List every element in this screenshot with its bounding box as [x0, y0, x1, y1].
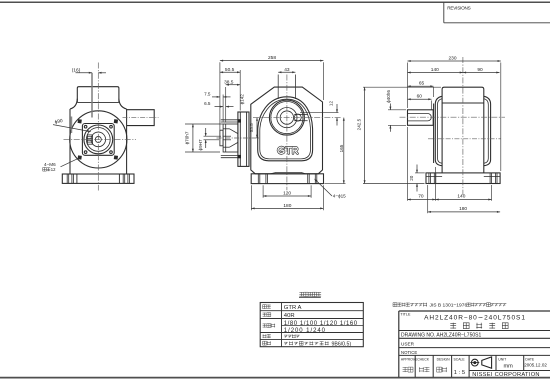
- svg-text:(16): (16): [72, 67, 81, 73]
- bottom row dividers: [414, 355, 416, 377]
- dim 7.5: [212, 96, 220, 98]
- svg-text:50.5: 50.5: [225, 67, 235, 73]
- svg-text:ϕ142: ϕ142: [239, 94, 244, 105]
- svg-text:4−ϕ15: 4−ϕ15: [333, 193, 346, 198]
- svg-text:120: 120: [283, 191, 291, 197]
- svg-text:242.5: 242.5: [357, 118, 362, 130]
- left view: gearbox front (input face) view: [43, 63, 159, 191]
- top page border: [0, 1, 550, 3]
- svg-text:APPROVE: APPROVE: [401, 357, 418, 361]
- inner bore circle: [280, 111, 293, 124]
- svg-text:REVISIONS: REVISIONS: [447, 5, 470, 10]
- REVISIONS block: [444, 2, 550, 23]
- housing tub outer: [258, 97, 313, 161]
- svg-text:180: 180: [459, 206, 467, 212]
- view vertical centerline: [286, 75, 288, 191]
- output shaft centerline: [123, 117, 159, 119]
- dim 20: [415, 172, 425, 174]
- spec table grid: [260, 303, 363, 347]
- foot tab inner edges: [76, 174, 78, 183]
- output shaft protruding right: [127, 110, 155, 126]
- svg-text:7.5: 7.5: [204, 91, 211, 96]
- base rib bump: [271, 173, 306, 174]
- cap joint line: [77, 101, 119, 103]
- title block frame: [398, 311, 400, 377]
- base plate: [426, 173, 500, 184]
- svg-text:9B6/0.5): 9B6/0.5): [332, 341, 352, 347]
- output shaft: [408, 110, 434, 126]
- middle view: side elevation with motor flange: [217, 75, 342, 191]
- svg-text:1/200 1/240: 1/200 1/240: [284, 328, 326, 334]
- motor flange plate: [238, 112, 249, 166]
- octagonal body outline: [251, 87, 323, 174]
- dim 38.5: [225, 87, 227, 123]
- hidden boss line left: [71, 117, 73, 134]
- svg-text:DESIGN: DESIGN: [437, 357, 451, 361]
- top clamp bolt: [221, 119, 238, 121]
- input bore lines: [223, 135, 231, 137]
- dim 180 bottom: [427, 185, 429, 213]
- svg-text:DATE: DATE: [525, 357, 535, 361]
- shaft hole circle: [277, 108, 297, 128]
- main body rect: [442, 87, 484, 173]
- spigot circle: [84, 125, 113, 154]
- svg-text:258: 258: [268, 55, 276, 61]
- svg-text:20: 20: [409, 175, 414, 181]
- body right side: [126, 109, 128, 174]
- input shaft circle: [95, 136, 101, 142]
- 4 blackened motor bolt holes: [78, 119, 82, 123]
- base pad lines: [426, 175, 442, 177]
- base slots: [257, 174, 259, 184]
- dim 242.5: [363, 86, 441, 88]
- svg-text:AH2LZ40R−80∼240L750S1: AH2LZ40R−80∼240L750S1: [424, 314, 526, 321]
- svg-text:mm: mm: [504, 363, 514, 369]
- right rim bulge inner: [484, 99, 489, 164]
- svg-text:2005.12.02: 2005.12.02: [524, 363, 547, 368]
- view vertical centerline: [462, 57, 464, 195]
- dim (16): [76, 72, 93, 74]
- body left side: [69, 109, 71, 174]
- dim 230: [407, 63, 409, 109]
- third angle projection symbol: [471, 359, 478, 366]
- keyway lines: [408, 114, 432, 121]
- spec table header (gear spec): [299, 292, 321, 296]
- svg-text:ϕ40h6: ϕ40h6: [386, 90, 391, 103]
- dim 60: [431, 101, 433, 110]
- housing tub inner wall: [260, 99, 311, 159]
- left rim bulge inner: [438, 99, 443, 164]
- motor flange circle: [70, 111, 127, 168]
- subtitle: outline dimension drawing: [450, 323, 508, 329]
- svg-text:165: 165: [339, 144, 344, 152]
- cover joint line: [442, 102, 484, 104]
- svg-text:CHECK: CHECK: [417, 357, 430, 361]
- svg-text:65: 65: [419, 81, 425, 87]
- svg-text:12: 12: [51, 167, 56, 172]
- dim 140 bottom: [491, 185, 493, 201]
- dim 180 middle: [250, 185, 252, 210]
- right rim bulge outer: [484, 96, 491, 165]
- svg-text:90: 90: [477, 67, 483, 73]
- note: output shaft key per JIS B 1301-1976: [393, 303, 427, 307]
- key section block with hatch: [87, 135, 92, 144]
- input shaft side line: [91, 73, 93, 118]
- dim 12 offset: [300, 112, 339, 114]
- svg-text:1/80 1/100 1/120 1/160: 1/80 1/100 1/120 1/160: [284, 321, 358, 327]
- base plate: [251, 174, 323, 184]
- base block: [62, 174, 134, 183]
- boss face line: [433, 104, 435, 164]
- svg-text:1 : 5: 1 : 5: [454, 370, 465, 376]
- svg-text:53.5: 53.5: [249, 123, 254, 132]
- svg-text:DRAWING NO. AH2LZ40R−L750S1: DRAWING NO. AH2LZ40R−L750S1: [401, 332, 481, 338]
- svg-text:70: 70: [418, 194, 424, 200]
- dim phi40h6: [388, 109, 406, 111]
- dim phi9H7: [204, 135, 222, 137]
- input axis centerline: [428, 138, 501, 140]
- dim 120: [262, 185, 264, 198]
- bearing boss inner circle: [271, 102, 303, 134]
- dim 43: [278, 71, 295, 73]
- signature names: [403, 367, 413, 372]
- svg-text:12: 12: [329, 101, 334, 107]
- dim 70: [407, 127, 409, 201]
- dim 50.5: [239, 70, 241, 111]
- svg-text:UNIT: UNIT: [498, 357, 506, 361]
- dim phi70h7: [185, 123, 223, 125]
- svg-text:60: 60: [417, 94, 423, 100]
- svg-text:JIS B 1301−1976: JIS B 1301−1976: [430, 302, 468, 308]
- dim 53.5: [256, 118, 258, 138]
- side plug small circle: [294, 114, 301, 121]
- body shoulders: [70, 99, 77, 109]
- dim 165: [324, 183, 345, 185]
- svg-text:140: 140: [457, 194, 465, 200]
- base slots: [428, 173, 430, 184]
- svg-text:ϕ70h7: ϕ70h7: [185, 131, 190, 144]
- vertical centerline: [97, 63, 99, 191]
- svg-text:GTR A: GTR A: [284, 305, 302, 311]
- foot slots right: [122, 174, 124, 183]
- svg-text:140: 140: [431, 67, 439, 73]
- svg-text:SCALE: SCALE: [454, 357, 466, 361]
- flange square with rounded corners: [82, 124, 114, 156]
- svg-text:180: 180: [283, 203, 291, 209]
- input axis centerline: [217, 137, 260, 139]
- svg-text:6.5: 6.5: [204, 101, 211, 106]
- output axis centerline: [400, 116, 506, 118]
- svg-text:40R: 40R: [284, 313, 295, 319]
- svg-text:TITLE: TITLE: [400, 312, 411, 316]
- input pilot stub: [220, 130, 223, 146]
- output axis centerline: [253, 117, 341, 119]
- right view: side elevation output shaft left: [400, 57, 506, 195]
- dim 65: [433, 88, 435, 98]
- svg-text:43: 43: [284, 67, 290, 73]
- 4-M6 tapped holes: [84, 125, 87, 128]
- horizontal centerline: [64, 138, 137, 140]
- svg-text:230: 230: [448, 56, 456, 62]
- key slot lines through plug: [294, 113, 307, 115]
- taper cone lines: [230, 129, 238, 134]
- body cap outline: [77, 87, 119, 103]
- pilot circle: [86, 127, 110, 151]
- bottom clamp bolt: [221, 155, 238, 157]
- table row labels: [263, 305, 271, 309]
- inner bore circle: [91, 132, 106, 147]
- bottom page border: [0, 377, 550, 379]
- dim 258: [219, 62, 221, 131]
- top boss lines (43 width): [277, 75, 279, 100]
- GTR logo: [278, 147, 298, 154]
- svg-text:NISSEI CORPORATION: NISSEI CORPORATION: [472, 372, 540, 378]
- svg-text:38.5: 38.5: [224, 80, 234, 86]
- dims 140 / 90: [408, 72, 463, 74]
- foot slots left: [66, 174, 68, 183]
- svg-text:USER: USER: [401, 341, 415, 346]
- phi90 leader and label: [53, 125, 91, 132]
- left rim bulge outer: [435, 96, 442, 165]
- svg-text:NOTICE: NOTICE: [401, 350, 417, 355]
- input spigot boss: [223, 124, 238, 152]
- dim 6.5: [215, 106, 224, 108]
- label 4-phi15: [315, 179, 333, 196]
- svg-text:ϕ9H7: ϕ9H7: [198, 139, 203, 150]
- bearing boss outer circle: [269, 100, 304, 135]
